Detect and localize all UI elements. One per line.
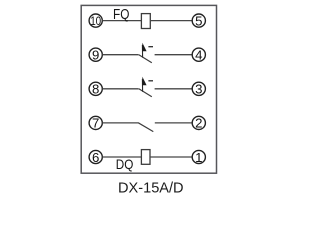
armature arrow row3 <box>142 77 147 92</box>
svg-text:7: 7 <box>92 116 99 131</box>
terminal 6 <box>89 150 102 165</box>
terminal 3 <box>192 82 205 97</box>
svg-text:4: 4 <box>195 48 202 63</box>
wire row3 right <box>155 88 193 90</box>
contact blade row2 <box>139 55 152 63</box>
svg-text:5: 5 <box>195 13 202 28</box>
terminal 7 <box>89 116 102 131</box>
wire row5 left <box>102 156 141 158</box>
svg-text:6: 6 <box>92 150 99 165</box>
wire row5 right <box>150 156 192 158</box>
svg-text:10: 10 <box>90 14 101 28</box>
svg-text:3: 3 <box>195 82 202 97</box>
svg-text:DQ: DQ <box>116 156 134 172</box>
wire row1 right <box>150 20 192 22</box>
svg-text:2: 2 <box>195 116 202 131</box>
coil FQ <box>141 14 150 29</box>
enclosure box <box>81 5 216 173</box>
terminal 4 <box>192 48 205 63</box>
wire row3 left <box>102 88 138 90</box>
svg-text:DX-15A/D: DX-15A/D <box>118 179 184 196</box>
contact blade row3 <box>139 89 152 97</box>
svg-text:9: 9 <box>92 48 99 63</box>
terminal 1 <box>192 150 205 165</box>
terminal 5 <box>192 13 205 28</box>
wire row2 left <box>102 54 138 56</box>
terminal 8 <box>89 82 102 97</box>
coil DQ <box>141 150 150 165</box>
terminal 2 <box>192 116 205 131</box>
minus dash row3 <box>148 80 153 82</box>
terminal 9 <box>89 48 102 63</box>
wire row4 right <box>155 122 193 124</box>
wire row1 left <box>102 20 141 22</box>
wire row4 left <box>102 122 138 124</box>
switch blade row4 <box>138 123 153 132</box>
svg-text:1: 1 <box>195 150 202 165</box>
svg-text:FQ: FQ <box>113 7 129 23</box>
terminal 10 <box>89 14 102 28</box>
wire row2 right <box>155 54 193 56</box>
armature arrow row2 <box>142 43 147 58</box>
minus dash row2 <box>148 46 153 48</box>
svg-text:8: 8 <box>92 82 99 97</box>
